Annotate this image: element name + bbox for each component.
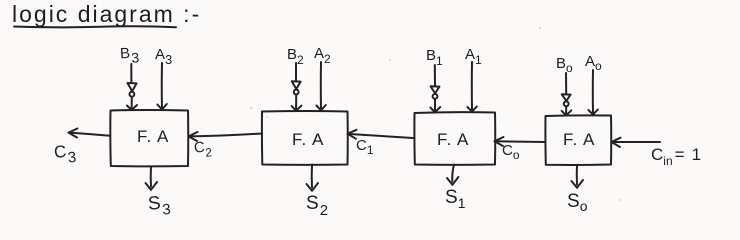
arrowhead B1 into U1 xyxy=(430,107,440,112)
arrowhead A3 into U3 xyxy=(157,104,166,110)
wire S1 output xyxy=(452,165,454,182)
svg-text:F. A: F. A xyxy=(563,130,595,149)
arrowhead B3 into U3 xyxy=(127,105,137,110)
wire inverter to U2 xyxy=(295,95,297,110)
title underline xyxy=(14,26,176,27)
wire S2 output xyxy=(311,165,313,188)
arrowhead C0 xyxy=(495,137,504,146)
wire B3 input xyxy=(130,64,132,83)
svg-text:F. A: F. A xyxy=(292,130,324,149)
full adder U2 box xyxy=(262,111,348,165)
arrowhead Cin into U0 xyxy=(612,138,621,147)
wire C1 from U1 to U2 xyxy=(350,134,414,138)
inverter on B2 xyxy=(292,81,301,89)
wire A1 input xyxy=(471,62,473,111)
wire B1 input xyxy=(434,65,436,86)
wire inverter to U3 xyxy=(131,97,133,110)
arrowhead A0 into U0 xyxy=(588,110,597,115)
wire C0 from U0 to U1 xyxy=(497,140,546,143)
wire B0 input xyxy=(565,73,567,94)
full adder U0 box xyxy=(545,115,611,165)
svg-text:F. A: F. A xyxy=(137,127,169,146)
arrowhead C2 xyxy=(189,132,198,141)
arrowhead S3 xyxy=(146,182,158,190)
wire A0 input xyxy=(592,70,594,114)
arrowhead C3 xyxy=(69,129,78,138)
full adder U3 box xyxy=(110,110,188,166)
svg-text:logic diagram :-: logic diagram :- xyxy=(12,1,201,27)
wire inverter to U0 xyxy=(565,106,567,114)
arrowhead S1 xyxy=(447,177,458,185)
wire B2 input xyxy=(295,63,297,81)
wire S0 output xyxy=(576,165,578,185)
inverter on B0 xyxy=(562,94,571,101)
arrowhead B2 into U2 xyxy=(292,106,302,111)
arrowhead S2 xyxy=(307,183,319,191)
wire Cin input xyxy=(614,141,661,143)
arrowhead C1 xyxy=(348,130,357,139)
arrowhead A1 into U1 xyxy=(467,107,476,112)
svg-text:F. A: F. A xyxy=(437,130,469,149)
full adder U1 box xyxy=(414,112,495,165)
wire inverter to U1 xyxy=(434,99,436,112)
wire C3 output from U3 xyxy=(70,133,110,136)
inverter on B1 xyxy=(431,86,440,93)
wire A2 input xyxy=(320,62,322,110)
wire C2 from U2 to U3 xyxy=(191,134,263,137)
inverter on B3 xyxy=(128,83,137,91)
wire S3 output xyxy=(150,167,152,187)
arrowhead A2 into U2 xyxy=(316,105,325,110)
arrowhead S0 xyxy=(572,180,584,188)
arrowhead B0 into U0 xyxy=(562,110,572,115)
wire A3 input xyxy=(161,63,163,109)
paper speckles xyxy=(39,27,681,201)
